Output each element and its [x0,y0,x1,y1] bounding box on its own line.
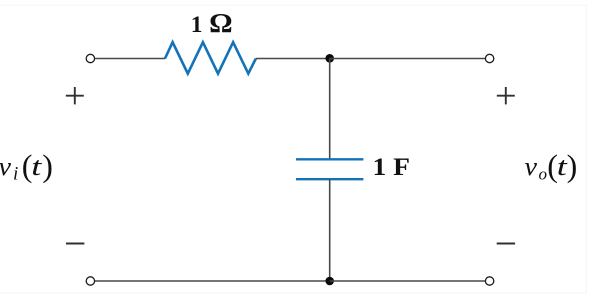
node A junction dot (top) [325,54,334,63]
svg-text:): ) [567,148,578,184]
terminal input bottom (open circle) [86,277,94,285]
resistor R1 (1 ohm zigzag) [165,42,256,73]
wire resistor to node A [256,58,330,60]
wire bottom rail left [95,280,330,282]
wire node A to output terminal [330,58,485,60]
svg-text:v: v [525,152,538,181]
svg-text:i: i [13,164,18,185]
plus sign output polarity [497,87,515,104]
terminal output bottom (open circle) [485,277,493,285]
capacitor C1 top plate [296,158,363,160]
svg-text:): ) [42,148,53,184]
svg-text:1 F: 1 F [373,152,411,181]
svg-text:t: t [31,152,42,181]
capacitor C1 bottom plate [296,178,363,180]
label v_o(t) output voltage [525,148,578,184]
wire input terminal to resistor [95,58,165,60]
terminal output top (open circle) [485,54,493,62]
minus sign output polarity [497,242,515,244]
svg-text:Ω: Ω [209,7,233,38]
terminal input top (open circle) [86,54,94,62]
wire node A down to capacitor [329,59,331,160]
svg-text:v: v [0,152,11,181]
wire capacitor down to node B [329,179,331,281]
plus sign input polarity [66,87,84,104]
node B junction dot (bottom) [325,277,334,286]
label v_i(t) input voltage [0,148,53,185]
svg-text:o: o [539,165,548,184]
svg-text:1: 1 [191,12,203,38]
wire bottom rail right [330,280,485,282]
minus sign input polarity [66,242,84,244]
value label 1 Ohm [191,7,233,38]
